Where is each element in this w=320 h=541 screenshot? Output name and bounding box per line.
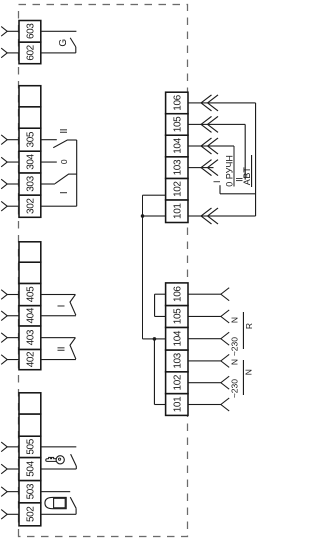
svg-text:I: I [212, 180, 222, 183]
terminal 602 [19, 42, 41, 64]
terminal 103 (left strip) [166, 350, 188, 372]
terminal 106 (right strip) [166, 92, 188, 114]
terminal 302 [19, 195, 41, 217]
terminal 304 [19, 151, 41, 173]
svg-text:106: 106 [172, 286, 183, 302]
svg-text:~230: ~230 [230, 379, 240, 398]
svg-text:I: I [59, 191, 70, 194]
svg-text:101: 101 [172, 396, 183, 412]
svg-text:403: 403 [25, 329, 36, 345]
svg-text:103: 103 [172, 352, 183, 368]
svg-text:0: 0 [59, 159, 69, 164]
svg-text:504: 504 [25, 460, 36, 476]
terminal block spare box [19, 393, 41, 414]
external wire arrow from left-strip terminal 106 [188, 288, 229, 301]
external wire arrow to terminal 603 [1, 27, 19, 37]
svg-text:104: 104 [172, 137, 183, 153]
terminal block spare box [19, 86, 41, 107]
terminal block spare box [19, 242, 41, 262]
svg-text:II: II [59, 129, 70, 134]
terminal 305 [19, 128, 41, 151]
svg-text:~230: ~230 [230, 337, 240, 356]
enclosure border (dashed outline of device) [19, 5, 188, 537]
svg-text:104: 104 [172, 330, 183, 346]
junction dot at bus / terminal 101 branch [141, 214, 145, 218]
group line for normal supply N [242, 360, 244, 395]
svg-text:603: 603 [25, 23, 36, 39]
terminal 603 [19, 21, 41, 43]
external wire arrow from left-strip terminal 101 [188, 398, 229, 411]
selector switch SA contact to terminal 303 (position I, closed) [41, 174, 77, 184]
selector switch SA fixed contact terminal 304 (position 0) [41, 161, 57, 163]
terminal 105 (right strip) [166, 114, 188, 136]
svg-text:0 РУЧН: 0 РУЧН [224, 155, 234, 187]
svg-text:102: 102 [172, 181, 183, 197]
svg-text:405: 405 [25, 286, 36, 302]
terminal 102 (right strip) [166, 178, 188, 200]
jumper wire between left-strip terminals 105 and 106 [155, 294, 166, 316]
external control wire from right-strip terminal 105 (circuit II) [188, 116, 245, 179]
external wire arrow to terminal 505 [1, 442, 19, 452]
lamp icon of push-button S1 [45, 497, 66, 508]
svg-text:304: 304 [25, 153, 36, 169]
wire down to left-strip terminal 101 [154, 404, 165, 406]
external wire arrow to terminal 502 [1, 510, 19, 520]
svg-text:105: 105 [172, 308, 183, 324]
group line for reserve supply R [242, 312, 244, 349]
terminal 303 [19, 173, 41, 195]
junction dot at left-strip terminal 104 wire [153, 337, 157, 341]
svg-text:303: 303 [25, 175, 36, 191]
svg-text:402: 402 [25, 351, 36, 367]
external control wire from right-strip terminal 101 [188, 208, 256, 224]
svg-text:305: 305 [25, 131, 36, 147]
switch contact S4, position II, between terminals 402 and 403 [41, 338, 76, 360]
external wire arrow to terminal 504 [1, 464, 19, 474]
svg-text:N: N [230, 317, 240, 323]
terminal 101 (left strip) [166, 394, 188, 416]
svg-text:N: N [244, 369, 254, 375]
internal wire run to left-strip terminal 101 [153, 339, 155, 405]
internal wire branch down to right-strip terminal 101 [143, 215, 166, 217]
external wire arrow to terminal 402 [1, 355, 19, 365]
terminal 403 [19, 326, 41, 350]
svg-text:503: 503 [25, 483, 36, 499]
svg-text:N: N [230, 359, 240, 365]
terminal 504 [19, 458, 41, 481]
terminal 101 (right strip) [166, 200, 188, 223]
svg-text:101: 101 [172, 203, 183, 219]
external control wire from right-strip terminal 106 (АВТ auto) [188, 95, 256, 216]
svg-text:103: 103 [172, 159, 183, 175]
terminal block spare box [19, 414, 41, 436]
external wire arrow to terminal 503 [1, 487, 19, 497]
switch contact S2 (key-operated) between terminals 504 and 505 [41, 447, 77, 469]
terminal 102 (left strip) [166, 372, 188, 394]
terminal block spare box [19, 262, 41, 283]
external wire arrow to terminal 305 [1, 135, 19, 145]
external wire arrow from left-strip terminal 102 [188, 376, 229, 389]
internal wire from right-strip terminal 102 up to bus [143, 194, 166, 196]
external wire arrow to terminal 404 [1, 311, 19, 321]
svg-text:302: 302 [25, 198, 36, 214]
switch contact S1 (illuminated push-button) between terminals 502 and 503 [41, 492, 76, 515]
terminal 404 [19, 306, 41, 326]
external wire arrow to terminal 303 [1, 179, 19, 189]
svg-text:R: R [244, 323, 254, 329]
internal bus vertical jog down [143, 338, 155, 340]
external wire arrow to terminal 405 [1, 290, 19, 300]
external control wire from right-strip terminal 103 (circuit I) [188, 160, 218, 176]
terminal 103 (right strip) [166, 157, 188, 179]
external wire arrow from left-strip terminal 105 [188, 310, 229, 323]
terminal 402 [19, 349, 41, 369]
svg-text:105: 105 [172, 116, 183, 132]
generator contact G between terminals 602 and 603 [41, 31, 77, 53]
selector switch SA contact to terminal 305 (position II, open) [41, 140, 77, 148]
terminal 405 [19, 283, 41, 305]
branch wire from terminal 101/106 run up to label I [220, 185, 256, 194]
svg-text:102: 102 [172, 374, 183, 390]
terminal 505 [19, 436, 41, 457]
external wire arrow to terminal 304 [1, 157, 19, 167]
svg-text:I: I [57, 305, 68, 308]
svg-text:404: 404 [25, 307, 36, 323]
terminal 502 [19, 503, 41, 526]
key icon of switch S2 [46, 456, 65, 464]
external wire arrow from left-strip terminal 103 [188, 354, 229, 367]
svg-text:502: 502 [25, 506, 36, 522]
svg-text:505: 505 [25, 438, 36, 454]
terminal 106 (left strip) [166, 283, 188, 306]
external wire arrow from left-strip terminal 104 [188, 332, 229, 345]
terminal 104 (right strip) [166, 135, 188, 157]
terminal 503 [19, 481, 41, 503]
external control wire from right-strip terminal 104 (0 manual) [188, 138, 234, 187]
terminal 105 (left strip) [166, 306, 188, 328]
svg-text:602: 602 [25, 44, 36, 60]
external wire arrow to terminal 403 [1, 333, 19, 343]
selector switch SA common wire from terminal 302 [41, 140, 77, 206]
svg-text:АВТ: АВТ [242, 166, 252, 185]
underline of label АВТ [251, 155, 253, 187]
terminal block spare box [19, 107, 41, 128]
switch contact S3, position I, between terminals 404 and 405 [41, 295, 76, 316]
wire down to left-strip terminal 104 [154, 338, 165, 340]
svg-text:II: II [57, 347, 68, 352]
svg-text:G: G [58, 39, 69, 47]
external wire arrow to terminal 602 [1, 48, 19, 58]
internal bus wire (node A) horizontal run [142, 195, 144, 339]
terminal 104 (left strip) [166, 327, 188, 350]
svg-text:106: 106 [172, 94, 183, 110]
external wire arrow to terminal 302 [1, 201, 19, 211]
